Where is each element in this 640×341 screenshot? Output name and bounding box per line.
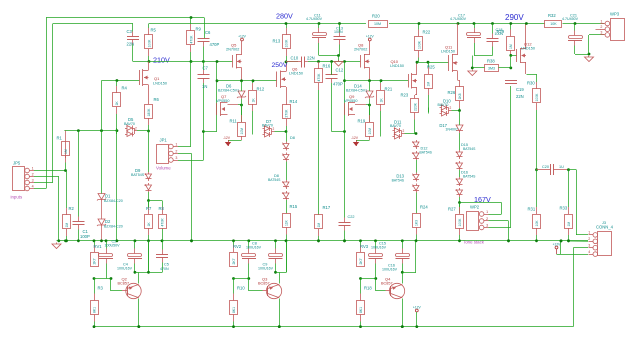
svg-text:C3: C3 (127, 29, 133, 34)
svg-text:2K7: 2K7 (359, 258, 363, 264)
svg-text:C20: C20 (542, 165, 549, 169)
wire C19 bottom to tone pin3 (510, 86, 512, 228)
svg-text:3: 3 (32, 178, 34, 182)
wire 280V rail (149, 23, 366, 25)
svg-text:1: 1 (486, 210, 488, 214)
junction stage3 plate (416, 61, 419, 64)
wire bank to R38 node (472, 56, 474, 69)
resistor R21 (377, 81, 393, 129)
wire 290V rail segment (389, 23, 545, 25)
svg-text:2K7: 2K7 (92, 258, 96, 264)
wire stage4 bank join (474, 55, 493, 57)
svg-text:R22: R22 (423, 30, 431, 35)
svg-text:BAT54S: BAT54S (463, 175, 476, 179)
svg-text:BC857: BC857 (258, 282, 270, 286)
wire Q2 emitter (138, 273, 140, 284)
svg-text:3: 3 (441, 109, 443, 113)
wire coax pin1 (576, 234, 588, 236)
junction C1 top (77, 129, 80, 132)
junction C10/R16 (317, 60, 320, 63)
svg-text:10K: 10K (535, 220, 539, 227)
capacitor C13 100N (334, 24, 346, 56)
svg-text:470P: 470P (210, 42, 220, 47)
wire top feedback line y=17 (46, 17, 204, 19)
svg-text:JP5: JP5 (13, 161, 21, 166)
svg-text:470K: 470K (189, 35, 193, 44)
svg-text:3: 3 (600, 31, 602, 35)
wire output down to coax pin1 (576, 170, 578, 236)
capacitor C6 470P (198, 39, 210, 62)
svg-text:RV1: RV1 (94, 244, 103, 249)
wire Q3 collector to rail (279, 299, 281, 327)
svg-text:22N: 22N (127, 42, 135, 47)
junction base cap Q2 (110, 277, 113, 280)
svg-text:1: 1 (32, 166, 34, 170)
dual diode D9 BAT54S (144, 172, 151, 192)
wire bottom emitter rail y=326.6 (94, 326, 574, 328)
wire D7 pin2 to chain (275, 131, 287, 133)
svg-text:4.7U450V: 4.7U450V (450, 17, 467, 21)
transistor Q7 VP0550 (217, 102, 228, 116)
capacitor C5 470N (156, 229, 168, 273)
svg-text:R10: R10 (237, 286, 245, 291)
svg-text:100K: 100K (284, 39, 288, 48)
junction R26/D10/D17 (458, 109, 461, 112)
svg-text:R19: R19 (358, 119, 366, 124)
wire plate to Q11 gate (417, 62, 449, 64)
junction R14/D8 (285, 130, 288, 133)
resistor R10 (230, 279, 246, 327)
capacitor C19 22N (505, 81, 517, 84)
junction R38/R29/C19 (509, 67, 512, 70)
capacitor bias node Q3 (269, 241, 283, 273)
svg-text:D2: D2 (105, 219, 111, 224)
transistor Q3 BC857 (263, 283, 282, 298)
junction C22 ground (343, 239, 346, 242)
svg-text:R6: R6 (154, 97, 160, 102)
junction pin1/R1/R2 (64, 169, 67, 172)
wire D9 to R7 (148, 192, 150, 208)
junction bias node Q2 (134, 271, 137, 274)
svg-text:4: 4 (588, 250, 590, 254)
svg-text:2: 2 (175, 149, 177, 153)
connector WP2 Tone stack (463, 205, 489, 245)
junction Q12 drain on rail (525, 22, 528, 25)
dual diode D8b BAT54S (282, 180, 289, 200)
dual diode D11 BAV70 (393, 126, 405, 139)
dual diode D7 BAV70 (263, 124, 275, 137)
junction C13 top (338, 22, 341, 25)
svg-text:3: 3 (394, 132, 396, 136)
resistor R15 (283, 204, 298, 273)
wire grid link vertical x=217 (216, 62, 218, 132)
wire coax pin2 ground (569, 240, 589, 242)
svg-text:R1: R1 (57, 136, 63, 141)
svg-text:BAT54S: BAT54S (463, 147, 476, 151)
wire stage3 grid link (332, 131, 345, 133)
svg-text:LND150: LND150 (289, 72, 303, 76)
svg-text:BC857: BC857 (118, 282, 130, 286)
wire volume pin1 (178, 146, 191, 148)
resistor RV3 (357, 241, 369, 267)
svg-text:BAT54S: BAT54S (392, 179, 405, 183)
svg-text:R8: R8 (159, 206, 165, 211)
junction stage3 grid link top (343, 60, 346, 63)
connector WP3 output (600, 12, 624, 41)
svg-text:R31: R31 (528, 207, 536, 212)
junction pin4 stub (560, 240, 563, 243)
wire 167V to tone stack pin1 (460, 202, 502, 204)
wire C21 bottom to ground (575, 54, 589, 56)
connector JP1 Volume (156, 138, 178, 171)
wire pin2 to ground rail (508, 221, 510, 241)
svg-text:C6: C6 (205, 30, 211, 35)
svg-text:LND150: LND150 (521, 47, 535, 51)
resistor R31 (528, 170, 541, 242)
svg-text:R7: R7 (146, 206, 152, 211)
wire 210V node (133, 61, 149, 63)
wire bias node Q2 (135, 272, 149, 274)
capacitor C21 4.7U450V (568, 24, 583, 55)
svg-text:R11: R11 (230, 119, 238, 124)
dual diode D16 BAT54S (455, 177, 462, 197)
wire R4 line down to ground (116, 126, 118, 241)
junction wiper/ground-rail crossing (190, 239, 193, 242)
svg-text:R4: R4 (122, 86, 128, 91)
wire cap bank join (319, 55, 340, 57)
svg-text:1M: 1M (567, 222, 571, 227)
capacitor base Q3 (242, 241, 257, 279)
svg-text:C10: C10 (291, 56, 299, 61)
svg-text:11K: 11K (284, 219, 288, 226)
svg-text:1: 1 (175, 142, 177, 146)
svg-text:C19: C19 (516, 87, 524, 92)
wire grid link horizontal (204, 131, 218, 133)
wire pin2 down to ground rail (58, 177, 60, 242)
svg-text:R20: R20 (372, 14, 380, 19)
junction R29 top on rail (509, 22, 512, 25)
connector J3 CONN_4 (588, 225, 613, 257)
svg-text:2: 2 (600, 25, 602, 29)
svg-text:10M: 10M (368, 128, 372, 135)
svg-text:1M: 1M (426, 82, 430, 87)
svg-text:BAT54S: BAT54S (420, 151, 433, 155)
wire left inner vertical x=53 (52, 24, 54, 183)
wire volume pin2 wiper (178, 153, 192, 155)
wire wiper down to ground rail (191, 154, 193, 242)
svg-text:4: 4 (32, 184, 34, 188)
diode D17 1N4007 (456, 125, 463, 133)
resistor R17 (315, 205, 331, 241)
dual diode D15 BAT54S (455, 150, 462, 170)
svg-text:250V: 250V (272, 62, 288, 69)
svg-text:BC857: BC857 (381, 282, 393, 286)
supply +12V Q8 drain (366, 35, 375, 41)
resistor R6 (145, 97, 160, 131)
svg-text:LND150: LND150 (441, 50, 455, 54)
junction C6/C7 midpoint (202, 60, 205, 63)
svg-text:D8: D8 (290, 136, 295, 140)
wire Q2 collector to rail (138, 299, 140, 327)
wire grid link vertical x=344.5 (344, 62, 346, 132)
svg-text:WP3: WP3 (610, 12, 620, 17)
junction R25 top (427, 61, 430, 64)
stub WP3 pin2 unconnected (596, 29, 602, 31)
svg-text:1M: 1M (317, 223, 321, 228)
supply -12V stage2 (223, 136, 231, 146)
svg-text:R29: R29 (497, 29, 505, 34)
svg-text:R3: R3 (98, 286, 104, 291)
wire output to coax (569, 169, 577, 171)
svg-text:-12V: -12V (223, 136, 231, 140)
transistor Q8 2N7002 (361, 41, 370, 81)
wire plate node to R9 (149, 61, 191, 63)
transistor Q9 VP0550 (345, 102, 356, 116)
svg-text:BAV70: BAV70 (124, 122, 135, 126)
wire D11 pin2 to chain (405, 133, 417, 135)
junction bias node Q3 (274, 271, 277, 274)
svg-text:4.7U450V: 4.7U450V (562, 17, 579, 21)
wire tone pin1 (489, 214, 502, 216)
svg-text:LND150: LND150 (153, 82, 167, 86)
svg-text:BAT54S: BAT54S (131, 173, 145, 177)
ground stage3 bank (334, 60, 343, 66)
svg-text:100U16V: 100U16V (117, 266, 133, 270)
svg-text:+12V: +12V (238, 35, 247, 39)
svg-text:2: 2 (273, 127, 275, 131)
svg-text:inputs: inputs (11, 195, 24, 200)
dual diode D5 BAV70 (125, 124, 137, 137)
svg-text:470N: 470N (160, 267, 169, 271)
svg-text:R27: R27 (448, 207, 456, 212)
svg-text:R38: R38 (487, 59, 495, 64)
wire C10 to Q8 gate (308, 61, 361, 63)
svg-text:1M: 1M (65, 223, 69, 228)
wire Q4 emitter (402, 273, 404, 284)
supply -12V stage3 (351, 136, 359, 146)
svg-text:R15: R15 (290, 204, 298, 209)
junction R23/D12 (415, 132, 418, 135)
svg-text:+12V: +12V (553, 242, 562, 246)
wire WP3 pin3 down (588, 35, 590, 54)
svg-text:100U16V: 100U16V (258, 266, 274, 270)
wire grid bus y=130.6 (65, 130, 118, 132)
svg-text:1M: 1M (64, 149, 68, 154)
svg-text:10M: 10M (374, 22, 381, 26)
wire Q2 base path (94, 278, 111, 280)
capacitor base Q4 (369, 241, 383, 279)
resistor R38 (485, 59, 499, 72)
svg-text:R24: R24 (420, 205, 428, 210)
wire input pin2 (34, 176, 59, 178)
svg-text:470K: 470K (317, 73, 321, 82)
resistor R32 (545, 13, 562, 28)
svg-text:BAV70: BAV70 (262, 123, 273, 127)
wire bias node Q3 (276, 272, 287, 274)
transistor Q4 BC857 (386, 283, 405, 298)
svg-text:R17: R17 (323, 205, 331, 210)
svg-text:R9: R9 (196, 27, 202, 32)
svg-text:WP2: WP2 (470, 205, 480, 210)
svg-text:100K: 100K (147, 39, 151, 48)
svg-text:1K: 1K (379, 98, 383, 103)
resistor R25 (425, 62, 436, 112)
wire stage2 grid bus y=80.8 (217, 80, 277, 82)
svg-text:2: 2 (588, 237, 590, 241)
resistor R26 (448, 80, 464, 111)
resistor R5 (145, 24, 157, 62)
svg-text:2K7: 2K7 (232, 258, 236, 264)
svg-text:RV3: RV3 (360, 244, 369, 249)
junction stage3 grid/clamp (343, 79, 346, 82)
wire coax pin4 (557, 254, 589, 256)
svg-text:C22: C22 (348, 215, 355, 219)
svg-text:J3: J3 (602, 221, 606, 225)
wire pin4 to ground rail stub (560, 241, 562, 254)
transistor Q6 LND150 (277, 62, 287, 105)
capacitor C17 4.7U450V (467, 24, 482, 56)
transistor Q1 LND150 (140, 62, 149, 104)
junction base cap Q3 (247, 277, 250, 280)
svg-text:3: 3 (264, 130, 266, 134)
svg-text:270K: 270K (284, 109, 288, 118)
wire Q12 gate stub (511, 55, 517, 57)
svg-text:LND150: LND150 (390, 64, 404, 68)
resistor R14 (283, 99, 298, 132)
wire rail to WP3 pin1 (563, 23, 605, 25)
wire Q1 gate wire y=80.5 (102, 80, 140, 82)
capacitor C22 22N (339, 132, 351, 242)
svg-text:R26: R26 (448, 90, 456, 95)
wire WP3 pin3 (589, 34, 604, 36)
ground output (585, 56, 594, 62)
junction C21 gnd (588, 53, 591, 56)
junction pin2 ground (507, 239, 510, 242)
wire bias node to C5 (149, 272, 163, 274)
svg-text:R16: R16 (323, 64, 331, 69)
wire gate feed vertical x=101.5 (101, 81, 103, 131)
diode D1 BZX84-C20 (97, 194, 106, 202)
svg-text:22N: 22N (307, 56, 315, 61)
resistor R12 (249, 81, 265, 128)
junction R9 bottom (190, 60, 193, 63)
wire C7 bottom down (203, 132, 205, 161)
svg-text:C12: C12 (336, 68, 344, 73)
svg-text:1N: 1N (202, 84, 207, 89)
svg-text:280V: 280V (276, 12, 293, 21)
junction R6/D5/D9 (147, 130, 150, 133)
svg-text:2: 2 (403, 129, 405, 133)
resistor R19 (358, 105, 374, 140)
svg-text:C7: C7 (203, 66, 209, 71)
transistor Q12 LND150 (517, 24, 527, 75)
resistor R11 (230, 105, 246, 140)
svg-text:1: 1 (588, 231, 590, 235)
wire Q3 emitter (279, 273, 281, 284)
svg-text:100U16V: 100U16V (246, 245, 262, 249)
resistor R3 (91, 279, 104, 327)
svg-text:4.7U450V: 4.7U450V (306, 17, 323, 21)
junction RV2/R10 (232, 277, 235, 280)
wire R19 to -12V (356, 140, 370, 142)
wire stage3 grid bus y=80.6 (345, 80, 409, 82)
resistor R13 (273, 24, 291, 63)
svg-text:+12V: +12V (413, 305, 422, 309)
dual diode D12 BAT54S (412, 140, 419, 160)
junction Q8 source / D14 (368, 79, 371, 82)
svg-text:R18: R18 (364, 286, 372, 291)
wire 250V to C10 (286, 61, 298, 63)
svg-text:100K: 100K (535, 93, 539, 102)
svg-text:2N7002: 2N7002 (354, 48, 367, 52)
resistor R8 (159, 201, 167, 230)
transistor Q5 2N7002 (233, 41, 242, 81)
junction grid link top (216, 60, 219, 63)
resistor R16 (315, 62, 331, 216)
svg-text:1K: 1K (251, 98, 255, 103)
resistor RV2 (230, 241, 242, 267)
wire top line into C6 (204, 18, 206, 39)
wire Q2 source-res below rail (148, 241, 150, 273)
svg-text:2N7002: 2N7002 (226, 48, 239, 52)
svg-text:100K: 100K (417, 40, 421, 49)
wire to R8 (149, 200, 163, 202)
wire Q3 base path (234, 278, 250, 280)
capacitor bias node Q4 (396, 241, 410, 273)
svg-text:R23: R23 (401, 93, 409, 98)
svg-text:2: 2 (450, 106, 452, 110)
junction R4 bottom / D5 (116, 129, 119, 132)
junction output tap (535, 168, 538, 171)
resistor R30 (527, 74, 541, 170)
resistor R29 (497, 24, 515, 56)
svg-text:3: 3 (175, 156, 177, 160)
svg-text:1K3: 1K3 (414, 220, 418, 226)
junction C12 top (330, 60, 333, 63)
wire Q7 to R11 node (228, 104, 239, 106)
wire input pin4 to outer line (34, 188, 46, 190)
svg-text:100U16V: 100U16V (371, 245, 387, 249)
junction RV3/R18 (359, 277, 362, 280)
svg-text:1N4007: 1N4007 (445, 128, 458, 132)
svg-text:2: 2 (486, 217, 488, 221)
svg-text:1: 1 (600, 19, 602, 23)
svg-text:VP0550: VP0550 (344, 99, 358, 103)
junction C11 top (318, 22, 321, 25)
wire D10 pin2 (452, 110, 460, 112)
capacitor C3 22N (127, 24, 139, 62)
svg-text:1U: 1U (559, 165, 564, 169)
svg-text:-12V: -12V (351, 136, 359, 140)
svg-text:BAV70: BAV70 (438, 103, 449, 107)
capacitor C12 470P (326, 62, 338, 132)
resistor R9 (187, 18, 202, 62)
wire chain to R24 (416, 193, 418, 214)
junction grid/clamp node (216, 79, 219, 82)
dual diode D13 BAT54S (412, 173, 419, 193)
svg-text:JP1: JP1 (160, 138, 168, 143)
resistor R27 (448, 203, 464, 242)
junction R7/R8 tap (147, 199, 150, 202)
svg-text:BAV70: BAV70 (390, 124, 401, 128)
svg-text:100U16V: 100U16V (382, 267, 398, 271)
svg-text:R21: R21 (385, 87, 393, 92)
resistor R22 (415, 24, 431, 63)
wire main ground rail y=240.8 (57, 240, 589, 242)
junction base cap Q4 (374, 277, 377, 280)
resistor R33 (560, 170, 573, 242)
ground main rail (52, 243, 61, 249)
